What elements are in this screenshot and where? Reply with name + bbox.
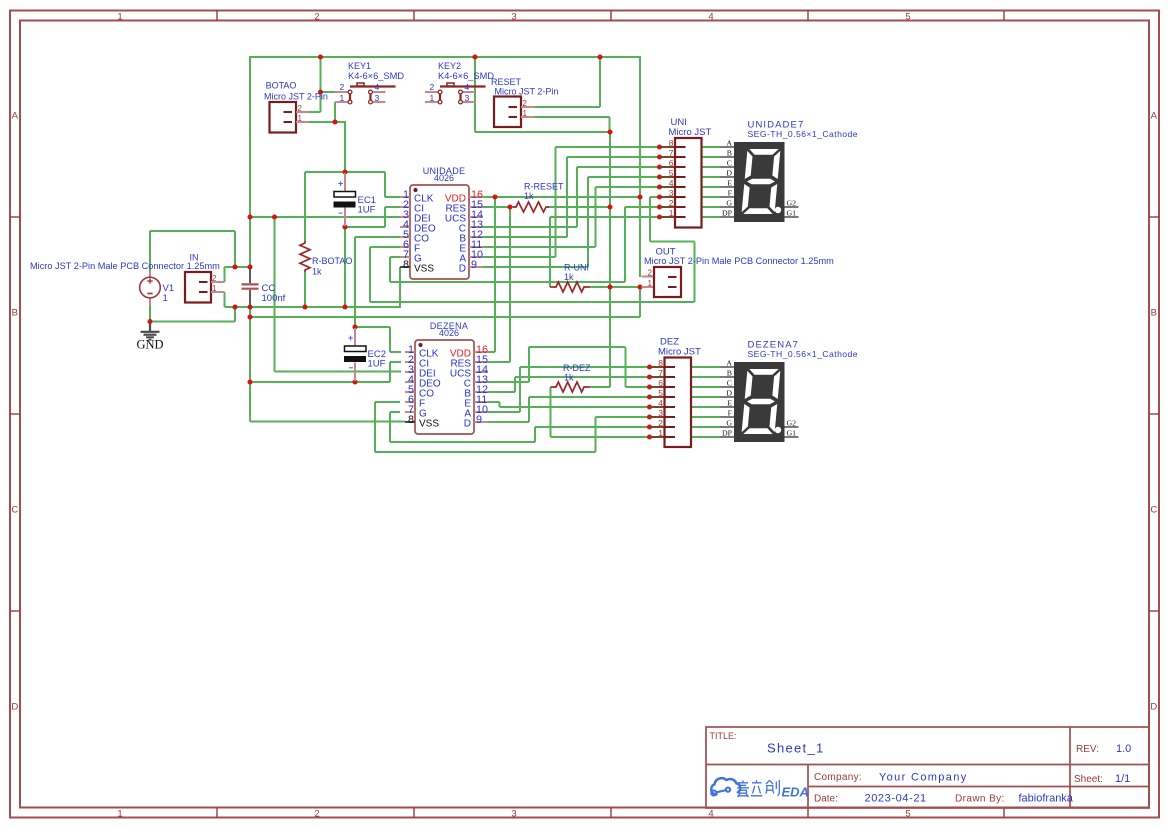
svg-text:Sheet_1: Sheet_1 xyxy=(767,741,825,756)
svg-text:1: 1 xyxy=(648,279,653,288)
svg-text:B: B xyxy=(12,308,18,319)
connector OUT pin 1 stub xyxy=(642,286,655,288)
wire G net shelf y=282 xyxy=(390,281,625,283)
wire RES2 row y=362 xyxy=(485,361,510,363)
svg-text:2: 2 xyxy=(523,99,528,108)
svg-text:1/1: 1/1 xyxy=(1115,773,1130,785)
wire R-BOTAO top riser xyxy=(304,172,306,241)
wire GND row to DEZENA VSS y=422 xyxy=(250,421,405,423)
display UNIDADE7 labels G2 G1 xyxy=(787,199,797,218)
wire segment E2 staircase xyxy=(485,401,500,403)
frame column ticks bottom xyxy=(217,808,1004,818)
svg-text:+: + xyxy=(338,179,343,189)
svg-text:BOTAO: BOTAO xyxy=(266,81,297,91)
svg-text:G1: G1 xyxy=(787,429,797,438)
wire segment A2 staircase xyxy=(485,411,520,413)
wire KEY1 pin1 drop xyxy=(334,102,336,122)
svg-text:DP: DP xyxy=(722,209,733,218)
display UNIDADE7 seven segment digit xyxy=(741,149,780,214)
svg-text:2: 2 xyxy=(340,82,345,92)
svg-text:D: D xyxy=(726,389,732,398)
svg-text:REV:: REV: xyxy=(1076,744,1099,755)
display DEZENA7 labels G2 G1 xyxy=(787,419,797,438)
IC UNIDADE left pin numbers 1-8 xyxy=(403,189,409,271)
connector OUT pin marks xyxy=(668,276,677,278)
wire GND row y=307 xyxy=(225,306,401,308)
wire RES/KEY2 rail x=610 xyxy=(609,132,611,387)
svg-text:1: 1 xyxy=(523,109,528,118)
ground symbol GND xyxy=(141,322,160,340)
svg-text:F: F xyxy=(728,189,733,198)
connector DEZ box xyxy=(665,358,692,448)
svg-text:Micro JST 2-Pin: Micro JST 2-Pin xyxy=(264,92,328,102)
switch KEY1 xyxy=(348,83,395,104)
svg-text:B: B xyxy=(1151,308,1157,319)
svg-text:100nf: 100nf xyxy=(262,293,286,304)
switch KEY1 pin stubs xyxy=(335,92,386,102)
svg-text:1k: 1k xyxy=(564,272,574,282)
wire F row y=197 to display xyxy=(650,196,720,198)
wire G net from pin7 xyxy=(390,256,400,258)
svg-text:Micro JST: Micro JST xyxy=(669,127,712,138)
resistor R-DEZ xyxy=(551,386,554,388)
wire V1+ top horizontal xyxy=(150,230,235,232)
svg-text:1UF: 1UF xyxy=(358,205,376,216)
svg-text:6: 6 xyxy=(669,158,674,168)
svg-text:2: 2 xyxy=(212,274,217,283)
svg-text:C: C xyxy=(727,379,732,388)
svg-text:2023-04-21: 2023-04-21 xyxy=(865,793,927,805)
svg-text:4: 4 xyxy=(465,82,470,92)
wire CLK node to R-BOTAO xyxy=(305,171,345,173)
display DEZENA7 seven segment digit xyxy=(741,369,780,434)
wire +V left drop x=250 xyxy=(249,56,251,267)
wire +V rail right drop x=640 to OUT pin 2 xyxy=(639,56,641,277)
display DEZENA7 pin letters xyxy=(722,359,733,438)
IC UNIDADE right pin stubs xyxy=(469,197,483,267)
svg-text:Micro JST 2-Pin Male PCB Conne: Micro JST 2-Pin Male PCB Connector 1.25m… xyxy=(644,256,834,266)
wire segment F2 path xyxy=(375,401,400,403)
wire GND row y=317 xyxy=(250,316,640,318)
frame row letters left xyxy=(11,111,18,713)
svg-text:5: 5 xyxy=(905,12,910,23)
display UNIDADE7 decimal point xyxy=(775,207,781,213)
IC UNIDADE 4026 body xyxy=(410,185,469,279)
wire F net riser x=650 xyxy=(649,197,651,242)
svg-text:1: 1 xyxy=(340,93,345,103)
voltage source V1 xyxy=(140,272,161,307)
wire GND to V1 horizontal y=322 xyxy=(150,321,235,323)
IC DEZENA right pin numbers 16-9 xyxy=(476,344,488,426)
svg-text:EDA: EDA xyxy=(782,785,809,800)
svg-text:D: D xyxy=(726,169,732,178)
svg-text:6: 6 xyxy=(658,378,663,388)
svg-text:8: 8 xyxy=(669,138,674,148)
wire DP row y=217 xyxy=(550,216,720,218)
label KEY2 pin numbers xyxy=(430,82,470,103)
wire +V row y=267 xyxy=(225,266,251,268)
JLCEDA logo cloud xyxy=(711,778,740,795)
svg-text:SEG-TH_0.56×1_Cathode: SEG-TH_0.56×1_Cathode xyxy=(748,349,859,359)
wire CLK node east xyxy=(345,171,385,173)
svg-text:R-UNI: R-UNI xyxy=(564,263,589,273)
svg-text:4: 4 xyxy=(708,12,713,23)
svg-text:1: 1 xyxy=(658,428,663,438)
svg-text:3: 3 xyxy=(658,408,663,418)
wire BOTAO pin2 riser x=320 xyxy=(320,57,322,112)
wire segment B staircase xyxy=(483,236,567,238)
svg-text:F: F xyxy=(728,409,733,418)
svg-text:E: E xyxy=(727,399,732,408)
wire +V top rail xyxy=(250,56,641,58)
display DEZENA7 body xyxy=(734,362,785,442)
svg-text:1: 1 xyxy=(163,293,168,304)
wire VDD2 row y=352 xyxy=(485,351,495,353)
svg-text:A: A xyxy=(726,359,732,368)
wire R-BOTAO bottom riser xyxy=(304,272,306,308)
svg-text:R-RESET: R-RESET xyxy=(524,182,564,192)
svg-text:8: 8 xyxy=(408,414,414,426)
svg-text:4026: 4026 xyxy=(439,328,459,338)
connector OUT pin 2 stub xyxy=(642,276,655,278)
wire CO riser x=355 xyxy=(355,236,400,238)
IC UNIDADE right pin numbers 16-9 xyxy=(471,189,483,271)
frame column numbers bottom xyxy=(117,809,910,820)
capacitor EC2 xyxy=(344,328,366,381)
junction dots xyxy=(147,54,642,384)
svg-text:TITLE:: TITLE: xyxy=(710,731,737,741)
frame row ticks left xyxy=(10,217,20,611)
svg-text:K4-6×6_SMD: K4-6×6_SMD xyxy=(348,71,404,81)
wire segment D staircase xyxy=(483,266,588,268)
connector RESET pin 2 stub xyxy=(521,106,535,108)
svg-text:4: 4 xyxy=(669,178,674,188)
wire GND riser x=235 xyxy=(234,307,236,322)
svg-text:1k: 1k xyxy=(564,373,574,383)
svg-text:4: 4 xyxy=(658,398,663,408)
svg-text:5: 5 xyxy=(669,168,674,178)
IC UNIDADE left pin stubs xyxy=(400,197,410,267)
wire segment E staircase xyxy=(483,246,596,248)
connector DEZ pin stubs xyxy=(650,367,665,437)
connector RESET box xyxy=(494,97,521,128)
svg-text:1: 1 xyxy=(117,809,122,820)
svg-text:D: D xyxy=(11,702,18,713)
IC DEZENA right pin names xyxy=(450,349,471,430)
capacitor CC xyxy=(242,268,259,306)
svg-text:7: 7 xyxy=(669,148,674,158)
connector UNI box xyxy=(675,138,702,228)
IC DEZENA right pin stubs xyxy=(474,352,488,422)
svg-text:1.0: 1.0 xyxy=(1116,743,1131,755)
svg-text:1k: 1k xyxy=(524,191,534,201)
wire DEI2 row y=371.5 xyxy=(275,371,402,373)
svg-text:B: B xyxy=(727,149,732,158)
wire segment C2 staircase xyxy=(485,381,529,383)
svg-text:1k: 1k xyxy=(312,267,322,277)
svg-text:Sheet:: Sheet: xyxy=(1074,774,1103,785)
svg-text:Micro JST 2-Pin Male PCB Conne: Micro JST 2-Pin Male PCB Connector 1.25m… xyxy=(30,261,220,271)
wire R-UNI right to OUT pin1 y=287 xyxy=(590,286,641,288)
svg-text:2: 2 xyxy=(314,809,319,820)
svg-text:K4-6×6_SMD: K4-6×6_SMD xyxy=(438,71,494,81)
connector BOTAO pin 1 stub xyxy=(296,121,309,123)
junction dots DEZ pins xyxy=(647,364,652,439)
svg-text:1: 1 xyxy=(117,12,122,23)
svg-text:D: D xyxy=(459,264,466,275)
wire EC2- to CI2 jog xyxy=(389,362,391,382)
wire +V drop x=235 xyxy=(234,231,236,267)
svg-text:2: 2 xyxy=(658,418,663,428)
connector OUT box xyxy=(654,267,681,297)
svg-text:4: 4 xyxy=(375,82,380,92)
wire BOTAO pin1 to KEY1 node xyxy=(309,121,345,123)
svg-text:C: C xyxy=(727,159,732,168)
label KEY1 pin numbers xyxy=(340,82,380,103)
connector IN box xyxy=(185,272,211,303)
wire RESET pin2 horizontal xyxy=(535,106,601,108)
wire R-DEZ right lead east xyxy=(590,386,610,388)
svg-text:9: 9 xyxy=(471,259,477,271)
junction dots UNI pins xyxy=(657,144,662,219)
svg-text:3: 3 xyxy=(375,93,380,103)
wire segment A staircase xyxy=(483,256,556,258)
connector UNI pin stubs xyxy=(660,147,676,217)
IC UNIDADE left pin names xyxy=(414,194,436,275)
frame column numbers top xyxy=(117,12,910,23)
wire F net riser x=694.5 xyxy=(694,242,696,303)
svg-text:GND: GND xyxy=(136,338,163,352)
connector BOTAO box xyxy=(270,102,297,133)
display UNIDADE7 pin letters xyxy=(722,139,733,218)
svg-text:SEG-TH_0.56×1_Cathode: SEG-TH_0.56×1_Cathode xyxy=(748,129,859,139)
wire EC1- to CI jog xyxy=(345,226,385,228)
svg-text:3: 3 xyxy=(511,809,516,820)
svg-text:3: 3 xyxy=(465,93,470,103)
svg-text:G: G xyxy=(726,199,732,208)
svg-text:2: 2 xyxy=(430,82,435,92)
svg-text:DP: DP xyxy=(722,429,733,438)
svg-text:+: + xyxy=(348,333,353,343)
svg-text:8: 8 xyxy=(403,259,409,271)
svg-text:R-DEZ: R-DEZ xyxy=(563,363,591,373)
wire IN pin2 riser xyxy=(224,267,226,282)
connector IN pin marks xyxy=(199,281,208,283)
wire RES2 rail x=510 xyxy=(509,207,511,362)
wire G row y=207 to display xyxy=(625,206,720,208)
wire RESET pin2 riser x=600 xyxy=(599,56,601,107)
frame row letters right xyxy=(1150,111,1157,713)
svg-text:1: 1 xyxy=(298,114,303,123)
wire GND drop x=250 to DEZENA VSS xyxy=(249,307,251,422)
connector RESET pin marks xyxy=(509,106,518,108)
wire CLK drop to pin1 xyxy=(384,172,386,197)
svg-text:2: 2 xyxy=(669,198,674,208)
svg-text:D: D xyxy=(1150,702,1157,713)
wire CLK into UNIDADE pin1 xyxy=(385,196,400,198)
svg-text:C: C xyxy=(11,505,18,516)
svg-text:1: 1 xyxy=(669,208,674,218)
IC DEZENA left pin numbers 1-8 xyxy=(408,344,414,426)
wire riser x=640 y=287-317 xyxy=(639,287,641,317)
display DEZENA7 left pin stubs xyxy=(720,367,734,437)
wire segment G2 path xyxy=(390,411,400,413)
svg-text:Drawn By:: Drawn By: xyxy=(955,794,1005,805)
IC DEZENA left pin names xyxy=(419,349,441,430)
svg-text:7: 7 xyxy=(658,368,663,378)
resistor R-UNI xyxy=(550,286,553,288)
svg-text:D: D xyxy=(464,419,471,430)
wire EC2- row y=382 xyxy=(250,381,390,383)
svg-text:VSS: VSS xyxy=(414,264,434,275)
label DEZ pin numbers 8-1 xyxy=(658,358,663,438)
wire V1+ riser xyxy=(149,231,151,272)
svg-text:4026: 4026 xyxy=(434,173,454,183)
display UNIDADE7 left pin stubs xyxy=(720,147,734,217)
wire EC1- to GND riser x=345 xyxy=(344,227,346,307)
wire CLK net riser x=345 xyxy=(344,121,346,172)
svg-text:KEY2: KEY2 xyxy=(438,61,461,71)
svg-text:E: E xyxy=(727,179,732,188)
svg-text:fabiofranka: fabiofranka xyxy=(1019,793,1074,805)
svg-text:2: 2 xyxy=(298,104,303,113)
svg-text:3: 3 xyxy=(511,12,516,23)
JLCEDA logo characters jia li chuang xyxy=(737,780,779,797)
svg-text:4: 4 xyxy=(708,809,713,820)
wire segment D2 staircase xyxy=(485,421,529,423)
svg-text:A: A xyxy=(1151,111,1158,122)
connector BOTAO pin marks xyxy=(284,111,293,113)
connector IN pin 1 stub xyxy=(211,291,225,293)
wire G net riser x=625 xyxy=(624,207,626,282)
svg-text:G1: G1 xyxy=(787,209,797,218)
connector RESET pin 1 stub xyxy=(521,116,535,118)
wire F net from pin6 xyxy=(370,246,400,248)
svg-text:VSS: VSS xyxy=(419,419,439,430)
wire KEY2 row y=132 xyxy=(475,131,610,133)
wire IN pin1 drop xyxy=(224,292,226,307)
svg-text:3: 3 xyxy=(669,188,674,198)
wire RES row west of resistor xyxy=(483,206,513,208)
svg-text:2: 2 xyxy=(314,12,319,23)
svg-text:A: A xyxy=(12,111,19,122)
resistor R-RESET xyxy=(513,202,549,212)
svg-text:Date:: Date: xyxy=(814,794,838,805)
wire VDD rail x=495 xyxy=(494,197,496,352)
svg-text:Micro JST 2-Pin: Micro JST 2-Pin xyxy=(495,87,559,97)
title block outline xyxy=(706,727,1149,808)
IC DEZENA 4026 body xyxy=(415,340,474,434)
svg-text:B: B xyxy=(727,369,732,378)
svg-text:9: 9 xyxy=(476,414,482,426)
wire VDD row y=197 xyxy=(483,196,641,198)
wire RESET pin1 drop xyxy=(609,117,611,132)
wire DP2 row y=437 xyxy=(551,436,721,438)
IC DEZENA left pin stubs xyxy=(405,352,415,422)
display DEZENA7 right pin stubs G2 G1 xyxy=(785,427,799,437)
svg-text:G2: G2 xyxy=(787,419,797,428)
svg-text:R-BOTAO: R-BOTAO xyxy=(312,256,352,266)
switch KEY2 xyxy=(438,83,485,104)
connector BOTAO pin 2 stub xyxy=(296,111,309,113)
connector IN pin 2 stub xyxy=(211,281,225,283)
svg-text:Micro JST: Micro JST xyxy=(658,347,701,358)
wire KEY1 pin2 horizontal xyxy=(320,91,336,93)
svg-text:5: 5 xyxy=(905,809,910,820)
switch KEY2 pin stubs xyxy=(425,92,476,102)
wire F net shelf y=241.5 xyxy=(650,241,695,243)
connector UNI pin marks xyxy=(676,147,686,217)
svg-text:G2: G2 xyxy=(787,199,797,208)
svg-text:A: A xyxy=(726,139,732,148)
display DEZENA7 decimal point xyxy=(775,427,781,433)
wire DP riser x=550 xyxy=(549,217,551,287)
IC DEZENA pin1 mark xyxy=(418,343,422,347)
wire VSS riser x=400 xyxy=(399,267,401,308)
resistor R-BOTAO xyxy=(300,241,310,272)
frame row ticks right xyxy=(1149,217,1159,611)
wire KEY2 riser x=475 xyxy=(474,56,476,132)
svg-text:1: 1 xyxy=(430,93,435,103)
wire F net shelf y=302 xyxy=(370,301,695,303)
wire segment C staircase xyxy=(483,226,577,228)
connector DEZ pin marks xyxy=(665,367,675,437)
capacitor EC1 xyxy=(334,173,356,226)
wire CLK2 from EC2+ node xyxy=(355,326,390,328)
frame column ticks top xyxy=(217,11,1004,21)
wire RES row east of resistor xyxy=(549,206,610,208)
wire DEI2 drop x=274.5 xyxy=(274,217,276,372)
IC UNIDADE right pin names xyxy=(445,194,466,275)
display UNIDADE7 body xyxy=(734,142,785,222)
svg-text:KEY1: KEY1 xyxy=(348,61,371,71)
wire RESET pin1 horizontal xyxy=(535,116,610,118)
svg-text:RESET: RESET xyxy=(491,77,522,87)
svg-text:5: 5 xyxy=(658,388,663,398)
svg-text:Company:: Company: xyxy=(814,772,862,783)
IC UNIDADE pin1 mark xyxy=(413,188,417,192)
svg-text:G: G xyxy=(726,419,732,428)
svg-text:1: 1 xyxy=(212,284,217,293)
wire DP2 riser x=550.5 xyxy=(550,387,552,437)
svg-text:8: 8 xyxy=(658,358,663,368)
wire segment B2 staircase xyxy=(485,391,515,393)
label UNI pin numbers 8-1 xyxy=(669,138,674,218)
svg-text:Your Company: Your Company xyxy=(879,772,968,784)
display UNIDADE7 right pin stubs G2 G1 xyxy=(785,207,799,217)
wire V1- drop xyxy=(149,305,151,322)
svg-text:1UF: 1UF xyxy=(368,359,386,370)
wire BOTAO pin2 horizontal xyxy=(309,111,321,113)
wire DEI row y=217 xyxy=(250,216,400,218)
svg-text:C: C xyxy=(1150,505,1157,516)
svg-text:2: 2 xyxy=(648,269,653,278)
